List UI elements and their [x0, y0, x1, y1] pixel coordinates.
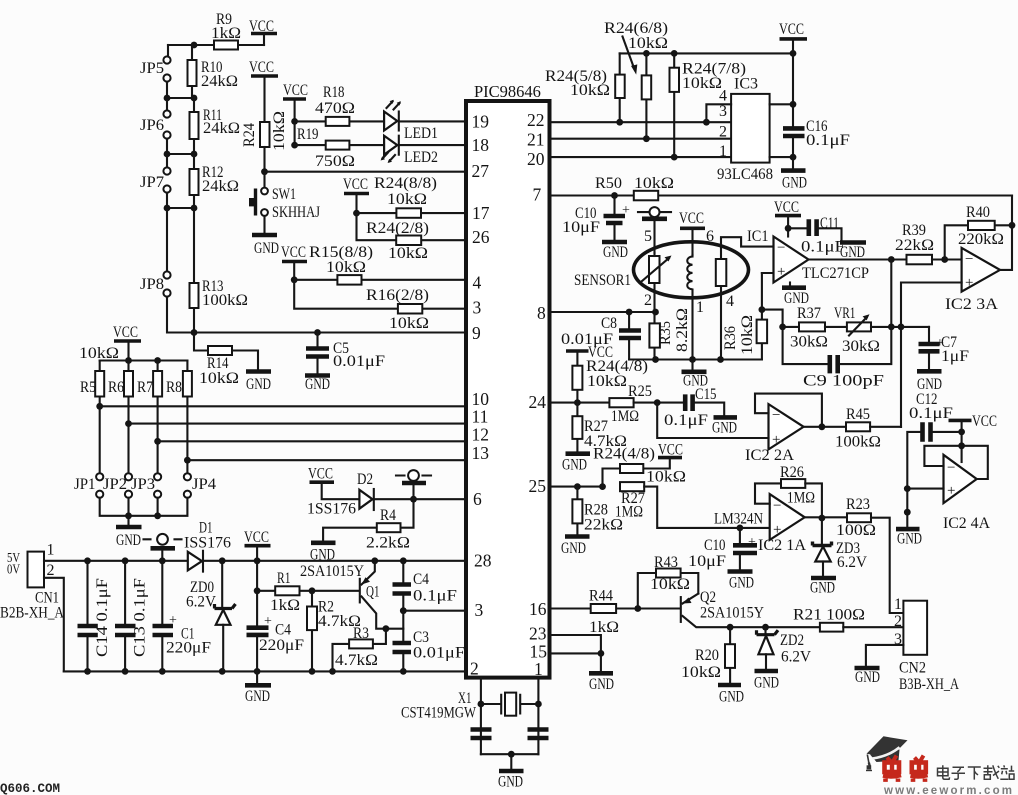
jumper JP8: [163, 271, 170, 278]
resistor R3: [333, 629, 386, 672]
wire xtal bottom: [481, 753, 539, 755]
wire R36 top to plus input: [762, 273, 783, 327]
svg-text:JP2: JP2: [103, 476, 127, 493]
svg-text:Q606.COM: Q606.COM: [0, 782, 60, 795]
svg-text:30kΩ: 30kΩ: [842, 338, 880, 355]
svg-text:IC2 4A: IC2 4A: [943, 515, 990, 532]
svg-text:R50: R50: [595, 175, 622, 192]
wire pin3: [403, 610, 466, 612]
svg-text:23: 23: [529, 624, 547, 644]
svg-text:GND: GND: [589, 676, 614, 693]
svg-text:1: 1: [894, 596, 902, 613]
svg-text:1μF: 1μF: [941, 348, 969, 365]
resistor R19: [295, 144, 384, 146]
svg-text:24kΩ: 24kΩ: [202, 178, 239, 195]
svg-text:4: 4: [719, 88, 727, 105]
ground testpoint (rail): [144, 538, 182, 540]
svg-text:R20: R20: [695, 647, 719, 664]
svg-text:GND: GND: [729, 575, 754, 592]
wire 1A minus loop + resistor R26: [755, 483, 781, 503]
svg-text:R24: R24: [241, 123, 258, 147]
svg-text:SKHHAJ: SKHHAJ: [272, 204, 320, 221]
svg-text:R7: R7: [137, 379, 153, 396]
svg-text:R43: R43: [654, 554, 678, 571]
svg-text:18: 18: [472, 135, 490, 155]
resistor R15(8/8): [294, 279, 466, 281]
resistor R20: [729, 627, 731, 683]
svg-text:R45: R45: [846, 406, 870, 423]
svg-text:R37: R37: [797, 305, 821, 322]
wire sensor pin4 down: [720, 286, 722, 360]
svg-text:8: 8: [537, 303, 546, 323]
jumper JP4: [184, 473, 191, 480]
svg-text:22: 22: [527, 110, 545, 130]
svg-text:0.1μF: 0.1μF: [806, 132, 850, 149]
capacitor C10 b polarized: [739, 528, 741, 543]
wire row154: [167, 139, 194, 155]
resistor R36: [759, 306, 766, 313]
svg-text:R16(2/8): R16(2/8): [366, 287, 429, 304]
svg-text:4.7kΩ: 4.7kΩ: [335, 652, 378, 669]
svg-text:10kΩ: 10kΩ: [387, 191, 427, 208]
resistor R24(6/8): [645, 53, 647, 138]
wire row98: [167, 82, 194, 99]
svg-text:10kΩ: 10kΩ: [682, 75, 722, 92]
resistor R24(5/8): [619, 53, 621, 122]
svg-text:+: +: [965, 275, 973, 291]
svg-text:R4: R4: [380, 507, 396, 524]
svg-text:+: +: [748, 535, 756, 550]
wire IC1 output: [809, 258, 907, 260]
svg-text:6: 6: [473, 489, 482, 509]
capacitor C9: [783, 327, 828, 364]
sensor right resistor: [716, 259, 727, 286]
svg-text:C14 0.1μF: C14 0.1μF: [94, 578, 111, 657]
svg-text:VCC: VCC: [249, 59, 274, 76]
capacitor C4 0.1u: [402, 561, 404, 611]
wire 2A minus loop: [755, 394, 822, 427]
svg-text:3: 3: [473, 298, 482, 318]
sensor variable resistor: [649, 256, 660, 283]
crystal X1 CST419MGW: [481, 703, 539, 705]
wire 4A feedback loop: [924, 446, 987, 479]
ground GND (SW1): [263, 216, 265, 233]
svg-text:VCC: VCC: [308, 466, 333, 483]
svg-text:21: 21: [527, 130, 545, 150]
ground GND (IC3): [792, 157, 794, 169]
svg-text:GND: GND: [245, 688, 270, 705]
node pin11: [125, 420, 132, 427]
svg-text:1MΩ: 1MΩ: [787, 490, 815, 507]
node C10b: [737, 525, 744, 532]
capacitor C7 polarized: [928, 327, 930, 343]
svg-text:5: 5: [644, 228, 652, 245]
op-amp IC1 TLC271CP: [774, 237, 809, 283]
capacitor C16: [783, 128, 805, 136]
resistor R50: [634, 191, 658, 201]
wire 2A output: [804, 426, 846, 428]
diode D2 1SS176: [359, 490, 372, 509]
svg-text:LED1: LED1: [404, 125, 438, 142]
power VCC (R9): [251, 32, 277, 36]
resistor R1: [257, 590, 312, 592]
capacitor C3: [402, 611, 404, 672]
resistor R9: [214, 41, 238, 50]
svg-text:R21 100Ω: R21 100Ω: [793, 607, 865, 624]
svg-text:24kΩ: 24kΩ: [203, 120, 240, 137]
svg-text:26: 26: [472, 227, 490, 247]
svg-text:GND: GND: [246, 376, 271, 393]
connector CN2 B3B-XH_A: [903, 601, 927, 655]
svg-text:B3B-XH_A: B3B-XH_A: [899, 676, 959, 693]
wire CN2 pin3 to gnd: [866, 645, 904, 666]
svg-text:+: +: [772, 432, 780, 448]
capacitor C11: [788, 227, 807, 229]
svg-text:1: 1: [534, 659, 543, 679]
jumper JP2: [125, 473, 132, 480]
resistor R27 1M: [620, 482, 644, 491]
wire R19 drop: [294, 121, 296, 145]
svg-text:VCC: VCC: [779, 21, 804, 38]
svg-text:R40: R40: [966, 204, 990, 221]
IC U1 PIC98646: [466, 101, 550, 678]
svg-text:CN2: CN2: [899, 660, 926, 677]
ground GND (R27a): [566, 451, 591, 456]
svg-text:B2B-XH_A: B2B-XH_A: [0, 605, 64, 622]
svg-text:C11: C11: [820, 215, 839, 232]
wire JP bottoms to rail: [100, 498, 188, 516]
svg-text:10kΩ: 10kΩ: [271, 111, 288, 151]
svg-text:JP6: JP6: [140, 117, 164, 134]
svg-text:C4: C4: [413, 571, 429, 588]
pin IC3 top right stub: [770, 103, 793, 105]
svg-text:+: +: [773, 522, 781, 538]
ground GND (R14): [246, 369, 271, 374]
resistor R24 vertical: [260, 122, 270, 147]
svg-text:C15: C15: [695, 386, 717, 403]
svg-text:GND: GND: [603, 244, 628, 261]
svg-text:16: 16: [529, 599, 547, 619]
svg-text:R36: R36: [722, 326, 739, 350]
resistor R12: [193, 154, 195, 208]
IC3 93LC468: [731, 94, 770, 163]
resistor R44: [591, 604, 616, 613]
svg-text:VCC: VCC: [113, 324, 138, 341]
node R9/R10 junction: [191, 42, 198, 49]
capacitor XC2: [528, 730, 549, 739]
wire pin11: [129, 423, 467, 425]
svg-text:C9 100pF: C9 100pF: [803, 373, 884, 390]
svg-text:0.1μF: 0.1μF: [413, 588, 457, 605]
capacitor XC1: [471, 730, 492, 739]
svg-text:R18: R18: [323, 84, 345, 101]
svg-text:GND: GND: [754, 675, 779, 692]
svg-text:VCC: VCC: [343, 176, 368, 193]
svg-text:7: 7: [533, 185, 542, 205]
svg-text:3: 3: [475, 600, 484, 620]
wire pin24: [550, 402, 610, 404]
trimmer VR1: [825, 326, 847, 328]
svg-text:11: 11: [472, 407, 489, 427]
svg-text:R24(4/8): R24(4/8): [593, 446, 655, 463]
svg-text:LED2: LED2: [404, 149, 438, 166]
svg-text:10kΩ: 10kΩ: [326, 259, 366, 276]
jumper JP6: [166, 98, 168, 111]
svg-text:IC2 1A: IC2 1A: [758, 537, 806, 554]
svg-text:2: 2: [47, 562, 55, 579]
logo site name 电子下载站: [938, 765, 1015, 779]
svg-text:−: −: [947, 460, 955, 476]
resistor R39: [907, 255, 933, 264]
jumper JP1: [96, 473, 103, 480]
wire xtal left: [480, 678, 482, 755]
svg-text:C4: C4: [275, 622, 291, 639]
svg-text:4: 4: [473, 273, 482, 293]
ground GND (xtal): [510, 754, 512, 769]
svg-text:IC2 2A: IC2 2A: [745, 447, 794, 464]
wire pin8: [550, 311, 656, 313]
switch SW1 SKHHAJ: [263, 172, 265, 188]
resistor R4: [323, 499, 413, 541]
svg-text:R8: R8: [166, 379, 182, 396]
svg-text:JP5: JP5: [140, 60, 164, 77]
diode D1 ISS176: [188, 552, 202, 571]
wire pin13: [187, 459, 466, 461]
svg-text:GND: GND: [310, 547, 335, 564]
svg-text:GND: GND: [498, 774, 523, 791]
ground GND (pin15): [589, 671, 613, 676]
capacitor C15: [685, 394, 692, 411]
svg-text:GND: GND: [810, 580, 835, 597]
node pin13: [184, 457, 191, 464]
svg-text:IC2 3A: IC2 3A: [945, 296, 998, 313]
wire IC2 3A output loop: [1000, 196, 1012, 270]
svg-text:R24(2/8): R24(2/8): [366, 220, 429, 237]
op-amp IC2 2A: [769, 404, 804, 449]
svg-text:22kΩ: 22kΩ: [895, 237, 934, 254]
testpoint TP6: [396, 474, 431, 476]
connector CN1 B2B-XH_A: [28, 552, 45, 588]
zener ZD0: [221, 561, 223, 607]
pin IC3 bottom right stub: [770, 156, 793, 158]
svg-text:10kΩ: 10kΩ: [199, 370, 239, 387]
wire 0V drop: [44, 578, 64, 672]
svg-text:+: +: [777, 264, 785, 280]
resistor R27 4.7k: [576, 403, 578, 452]
svg-text:24: 24: [529, 392, 547, 412]
svg-text:C3: C3: [413, 629, 429, 646]
svg-text:1: 1: [696, 299, 704, 316]
wire JP5 drop: [167, 45, 169, 57]
svg-text:www.eeworm.com: www.eeworm.com: [883, 785, 1013, 795]
jumper JP7: [166, 154, 168, 168]
capacitor C8: [628, 312, 630, 329]
wire IC2 3A plus input: [901, 283, 962, 428]
capacitor C4 220u polarized: [256, 561, 258, 672]
svg-text:GND: GND: [562, 457, 587, 474]
wire pin25: [550, 486, 603, 488]
LED LED2: [384, 136, 397, 155]
svg-text:VCC: VCC: [281, 244, 306, 261]
wire pin10: [100, 405, 466, 407]
resistor R6: [127, 361, 129, 474]
LED LED1: [384, 112, 397, 131]
svg-text:GND: GND: [561, 540, 586, 557]
svg-text:ISS176: ISS176: [184, 535, 231, 552]
resistor R28: [576, 487, 578, 535]
svg-text:10kΩ: 10kΩ: [389, 315, 429, 332]
svg-text:0.1μF: 0.1μF: [801, 239, 845, 256]
svg-text:10kΩ: 10kΩ: [646, 469, 686, 486]
resistor R5: [99, 361, 101, 474]
svg-text:30kΩ: 30kΩ: [790, 334, 828, 351]
svg-text:JP8: JP8: [140, 276, 164, 293]
ground GND (sensor): [691, 360, 693, 370]
svg-text:10kΩ: 10kΩ: [681, 664, 721, 681]
svg-text:2.2kΩ: 2.2kΩ: [366, 535, 410, 552]
resistor R18: [295, 120, 384, 122]
svg-text:R5: R5: [80, 379, 96, 396]
capacitor C14: [86, 561, 88, 672]
logo bug1: [883, 756, 901, 782]
svg-text:GND: GND: [855, 669, 880, 686]
svg-text:2SA1015Y: 2SA1015Y: [300, 563, 364, 580]
svg-text:GND: GND: [897, 531, 922, 548]
svg-text:VCC: VCC: [244, 529, 269, 546]
wire pin15 stub: [550, 653, 601, 671]
svg-text:1SS176: 1SS176: [307, 501, 356, 518]
svg-text:2SA1015Y: 2SA1015Y: [700, 605, 764, 622]
svg-text:R35: R35: [657, 321, 674, 345]
svg-text:SENSOR1: SENSOR1: [574, 272, 631, 289]
svg-text:1kΩ: 1kΩ: [589, 619, 619, 636]
svg-text:100kΩ: 100kΩ: [835, 434, 881, 451]
resistor R43: [638, 573, 699, 609]
testpoint TP5: [638, 211, 671, 213]
svg-text:0.01μF: 0.01μF: [413, 645, 465, 662]
svg-text:+: +: [947, 483, 955, 499]
svg-text:8.2kΩ: 8.2kΩ: [674, 308, 691, 352]
ground GND (main): [256, 671, 258, 683]
jumper JP5: [163, 56, 170, 63]
ground GND (4A): [896, 527, 920, 532]
op-amp IC2 4A: [944, 455, 977, 503]
resistor R24(4/8) b: [603, 459, 670, 487]
wire pin27: [265, 171, 467, 173]
svg-text:93LC468: 93LC468: [717, 166, 773, 183]
sensor coil: [691, 255, 693, 257]
capacitor C13: [124, 561, 126, 672]
wire pin23 stub: [550, 635, 601, 653]
svg-text:22kΩ: 22kΩ: [584, 517, 623, 534]
wire JP8 drop: [166, 208, 168, 272]
zener ZD3: [821, 518, 823, 544]
svg-text:10kΩ: 10kΩ: [388, 245, 428, 262]
transistor Q1 2SA1015Y: [359, 579, 361, 603]
op-amp IC2 1A LM324N: [770, 494, 805, 540]
svg-text:Q1: Q1: [366, 584, 380, 601]
resistor R7: [157, 361, 159, 474]
svg-text:TLC271CP: TLC271CP: [802, 265, 869, 282]
svg-text:C10: C10: [704, 537, 726, 554]
svg-text:R24(8/8): R24(8/8): [374, 175, 437, 192]
resistor R16(2/8): [294, 280, 466, 309]
svg-text:R1: R1: [277, 570, 291, 587]
wire 2A plus input: [657, 403, 768, 438]
svg-text:3: 3: [719, 103, 727, 120]
resistor R35: [653, 283, 655, 360]
wire label arrow: [623, 37, 635, 69]
svg-text:2: 2: [470, 659, 479, 679]
svg-text:JP4: JP4: [192, 476, 216, 493]
svg-text:0.1μF: 0.1μF: [664, 412, 708, 429]
resistor R25: [609, 398, 633, 407]
svg-text:0.01μF: 0.01μF: [333, 353, 385, 370]
svg-text:JP7: JP7: [140, 174, 164, 191]
resistor R2: [311, 591, 313, 672]
svg-text:Q2: Q2: [700, 589, 716, 606]
svg-text:R3: R3: [353, 625, 369, 642]
resistor R13: [193, 208, 195, 333]
svg-text:12: 12: [472, 425, 490, 445]
resistor R11: [193, 98, 195, 154]
ground GND (C15): [714, 415, 738, 420]
wire pin20: [550, 156, 731, 158]
zener ZD2: [764, 627, 766, 633]
wire 1A output: [805, 516, 847, 518]
svg-text:20: 20: [527, 149, 545, 169]
capacitor C10 polarized: [613, 196, 615, 215]
svg-text:19: 19: [472, 112, 490, 132]
svg-text:750Ω: 750Ω: [315, 153, 355, 170]
resistor R45: [846, 422, 870, 431]
wire JP8 to node: [167, 297, 194, 333]
wire R39 node to VR1 node: [891, 260, 929, 327]
svg-text:SW1: SW1: [272, 186, 296, 203]
svg-text:PIC98646: PIC98646: [474, 82, 541, 101]
resistor R21: [820, 623, 843, 632]
resistor R40: [945, 225, 1012, 259]
node pin10: [96, 403, 103, 410]
wire pin16: [550, 607, 679, 609]
svg-text:C13 0.1μF: C13 0.1μF: [132, 578, 149, 657]
wire row208: [167, 193, 194, 209]
svg-text:1kΩ: 1kΩ: [270, 597, 300, 614]
wire 4A plus input: [907, 488, 943, 490]
wire xtal right: [537, 678, 539, 755]
svg-text:17: 17: [472, 203, 490, 223]
svg-text:R6: R6: [108, 379, 124, 396]
svg-text:R26: R26: [780, 464, 804, 481]
svg-text:GND: GND: [254, 240, 279, 257]
wire R9 row: [168, 44, 264, 46]
svg-text:2: 2: [719, 124, 727, 141]
ground GND (R20): [718, 683, 741, 688]
svg-text:15: 15: [530, 642, 548, 662]
svg-text:6.2V: 6.2V: [781, 649, 811, 666]
svg-text:0V: 0V: [7, 562, 20, 577]
svg-text:1: 1: [719, 143, 727, 160]
svg-text:10kΩ: 10kΩ: [634, 175, 674, 192]
op-amp IC2 3A: [962, 248, 1000, 292]
ground GND (C11): [840, 240, 866, 245]
resistor R24(8/8): [357, 212, 467, 214]
wire pin6: [375, 498, 466, 500]
node pin12: [154, 438, 161, 445]
svg-text:25: 25: [529, 476, 547, 496]
svg-text:100kΩ: 100kΩ: [202, 292, 248, 309]
svg-text:GND: GND: [305, 376, 330, 393]
